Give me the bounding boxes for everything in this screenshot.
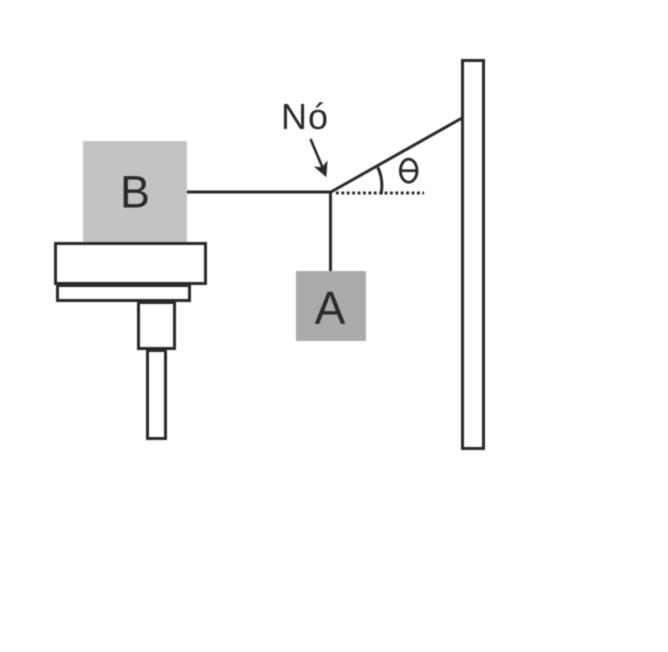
wire: rope from B to node (187, 191, 331, 194)
table lower slab (58, 286, 190, 301)
wire: rope from node down to block A (329, 192, 332, 271)
table top (56, 244, 206, 284)
node dotted horizontal reference line (336, 192, 424, 195)
svg-text:A: A (315, 282, 346, 334)
wire: rope from node up to wall (330, 118, 462, 193)
svg-text:B: B (120, 167, 150, 218)
angle arc theta (378, 167, 382, 194)
label theta: oval (400, 159, 417, 182)
arrow from No label to node (311, 139, 323, 168)
block A (hanging) (296, 271, 366, 341)
table lower column (leg) (148, 351, 166, 439)
wall (vertical) (463, 61, 484, 449)
svg-text:Nó: Nó (281, 96, 329, 137)
label theta: crossbar (402, 169, 417, 172)
table upper column (139, 303, 175, 349)
block B (83, 141, 187, 242)
